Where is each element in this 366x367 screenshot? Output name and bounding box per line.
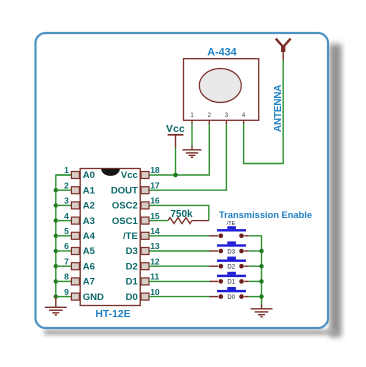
svg-text:OSC2: OSC2 — [112, 201, 138, 212]
svg-text:/TE: /TE — [123, 231, 138, 242]
U1 pin 11 (D1) — [126, 272, 160, 288]
U1 pin 13 (D3) — [126, 241, 160, 257]
svg-text:9: 9 — [64, 287, 69, 297]
svg-text:D1: D1 — [126, 277, 139, 288]
U1 pin 15 (OSC1) — [112, 211, 160, 227]
wire: address bus to ground — [56, 175, 72, 297]
U1 pin 8 (A7) — [56, 272, 95, 288]
svg-text:17: 17 — [150, 180, 160, 190]
wire: pin 10 to switch D0 — [149, 296, 211, 298]
U1 pin 16 (OSC2) — [112, 196, 160, 212]
svg-text:HT-12E: HT-12E — [95, 309, 130, 320]
svg-text:16: 16 — [150, 196, 160, 206]
wire: pin 18 to U2 pin 2 — [149, 120, 209, 175]
svg-text:Vcc: Vcc — [166, 124, 185, 135]
svg-text:A2: A2 — [83, 201, 95, 212]
svg-text:D2: D2 — [126, 261, 138, 272]
svg-text:A1: A1 — [83, 185, 96, 196]
svg-text:14: 14 — [150, 226, 160, 236]
svg-text:DOUT: DOUT — [111, 185, 138, 196]
svg-text:A5: A5 — [83, 246, 96, 257]
svg-text:8: 8 — [64, 272, 69, 282]
svg-text:A4: A4 — [83, 231, 96, 242]
switch /TE — [210, 221, 249, 238]
svg-text:D3: D3 — [227, 249, 235, 255]
wire: pin 12 to switch D2 — [149, 265, 211, 267]
U1 pin 10 (D0) — [126, 287, 160, 303]
svg-text:A6: A6 — [83, 261, 95, 272]
wire: pin 16 OSC2 to resistor — [149, 205, 209, 220]
svg-text:2: 2 — [64, 180, 69, 190]
antenna AE1 — [276, 39, 291, 61]
junction dots on address bus — [54, 188, 58, 299]
U1 pin 4 (A3) — [56, 211, 95, 227]
encoder U1 HT-12E — [80, 169, 140, 306]
wire: pin 11 to switch D1 — [149, 280, 211, 282]
svg-text:11: 11 — [150, 272, 159, 282]
wire: U2 pin 1 to ground — [191, 120, 193, 146]
wire: switch bus to ground — [249, 236, 262, 306]
switch D2 — [210, 257, 263, 271]
wire: pin 13 to switch D3 — [149, 250, 211, 252]
svg-text:4: 4 — [64, 211, 69, 221]
svg-text:10: 10 — [150, 287, 160, 297]
svg-text:13: 13 — [150, 241, 160, 251]
svg-text:A-434: A-434 — [207, 47, 236, 59]
svg-text:A0: A0 — [83, 170, 95, 181]
transmitter module U2 A-434 — [184, 59, 259, 121]
ground (U2 pin 1) — [183, 146, 202, 158]
resistor R1 750k — [168, 218, 209, 224]
U1 pin 1 (A0) — [56, 165, 95, 181]
svg-text:OSC1: OSC1 — [112, 216, 139, 227]
svg-text:7: 7 — [64, 256, 69, 266]
svg-text:A7: A7 — [83, 277, 95, 288]
svg-text:/TE: /TE — [227, 221, 236, 227]
svg-text:750k: 750k — [170, 209, 193, 220]
svg-text:12: 12 — [150, 256, 160, 266]
svg-text:D3: D3 — [126, 246, 138, 257]
U1 pin 14 (/TE) — [123, 226, 160, 242]
svg-text:D0: D0 — [126, 292, 138, 303]
power Vcc — [166, 124, 185, 148]
junction dots on switch bus — [259, 249, 263, 299]
wire: antenna to U2 pin 4 — [244, 60, 284, 164]
svg-text:3: 3 — [64, 196, 69, 206]
svg-text:5: 5 — [64, 226, 69, 236]
svg-text:A3: A3 — [83, 216, 95, 227]
svg-text:Transmission Enable: Transmission Enable — [219, 210, 312, 220]
wire: pin 14 to switch /TE — [149, 235, 211, 237]
U1 pin 5 (A4) — [56, 226, 96, 242]
U1 pin 12 (D2) — [126, 256, 160, 272]
svg-text:D2: D2 — [227, 265, 235, 271]
svg-text:D1: D1 — [227, 280, 235, 286]
svg-text:D0: D0 — [227, 295, 235, 301]
switch D3 — [210, 241, 263, 255]
junction (Vcc node) — [173, 173, 178, 178]
U1 pin 7 (A6) — [56, 256, 95, 272]
wire: pin 17 DOUT to U2 pin 3 — [149, 120, 226, 190]
wire: pin 15 OSC1 to resistor — [149, 220, 168, 222]
svg-text:6: 6 — [64, 241, 69, 251]
wire: Vcc to node — [175, 148, 177, 176]
svg-text:18: 18 — [150, 165, 160, 175]
svg-text:Vcc: Vcc — [121, 170, 138, 181]
U1 pin 17 (DOUT) — [111, 180, 160, 196]
U1 pin 18 (Vcc) — [121, 165, 160, 181]
ground (HT-12E address/GND) — [45, 297, 67, 315]
U1 pin 6 (A5) — [56, 241, 96, 257]
switch D0 — [210, 287, 263, 301]
svg-text:15: 15 — [150, 211, 160, 221]
U1 pin 3 (A2) — [56, 196, 95, 212]
ground (switch bus) — [251, 305, 273, 317]
svg-text:GND: GND — [83, 292, 104, 303]
U1 pin 9 (GND) — [56, 287, 104, 303]
switch D1 — [210, 272, 263, 286]
U1 pin 2 (A1) — [56, 180, 96, 196]
svg-text:1: 1 — [64, 165, 69, 175]
